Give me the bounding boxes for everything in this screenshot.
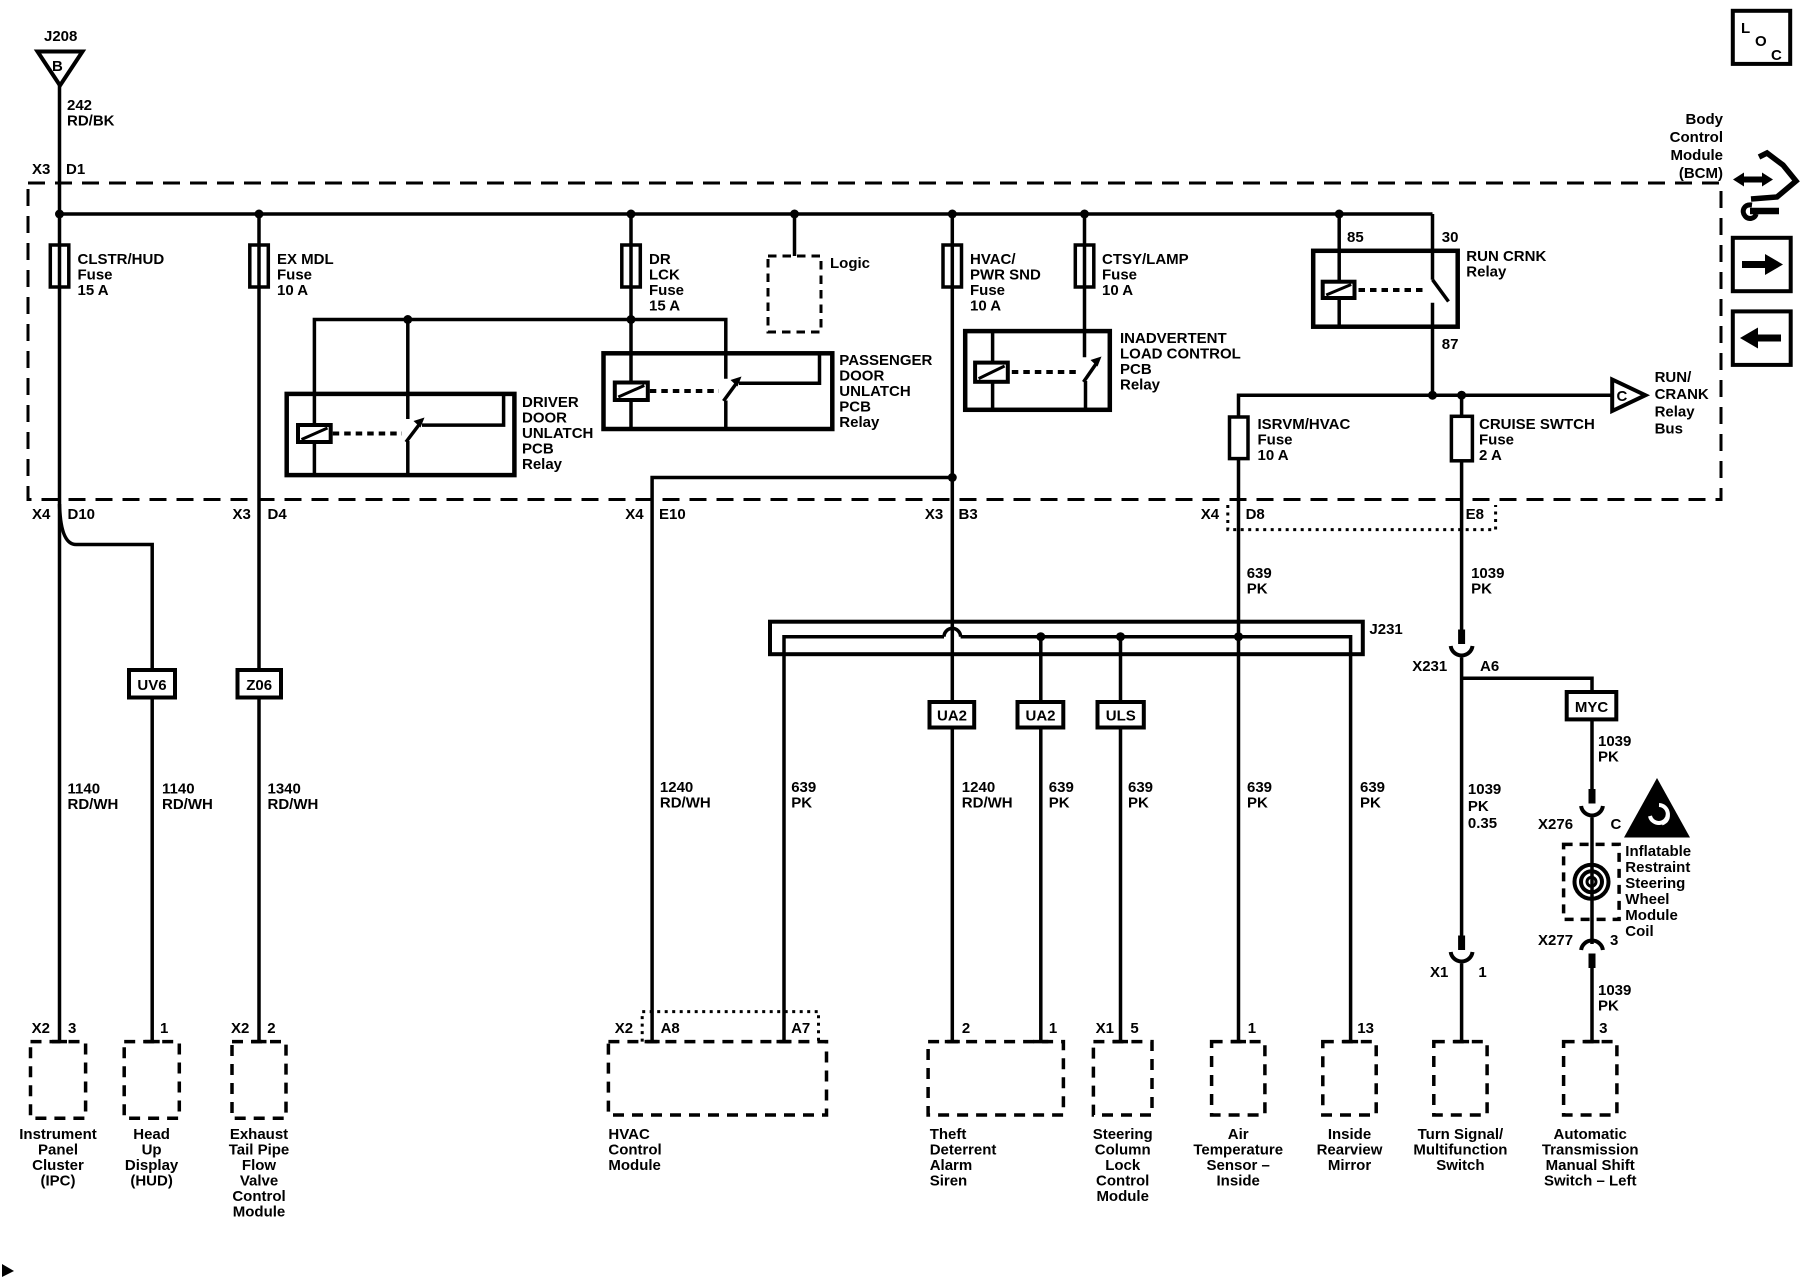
svg-text:Inside: Inside [1328,1126,1371,1143]
svg-text:DOOR: DOOR [522,410,567,427]
nav arrow box left [1733,311,1791,365]
svg-text:Up: Up [142,1142,162,1159]
wire RUN CRNK relay coil pin 85 [1337,214,1341,282]
svg-text:UV6: UV6 [137,677,166,694]
svg-text:1039: 1039 [1598,982,1631,999]
node: J231 junction 639 PK wire [1234,632,1243,641]
wire ULS splice output down [1119,637,1123,1042]
svg-text:Fuse: Fuse [970,282,1005,299]
svg-text:Exhaust: Exhaust [230,1126,288,1143]
svg-text:1: 1 [160,1020,168,1037]
wire X1 down to turn signal switch [1460,964,1464,1042]
svg-text:X1: X1 [1096,1020,1114,1037]
node: bus junction at EX MDL [255,210,264,219]
svg-text:LOAD CONTROL: LOAD CONTROL [1120,346,1241,363]
connector box Automatic Transmission Manual Shift Switch - Left [1542,1042,1639,1190]
svg-text:Logic: Logic [830,255,870,272]
svg-text:B3: B3 [959,506,978,523]
svg-text:Alarm: Alarm [930,1157,973,1174]
svg-text:1039: 1039 [1471,565,1504,582]
svg-text:Fuse: Fuse [649,282,684,299]
svg-text:PK: PK [1468,798,1489,815]
svg-text:10 A: 10 A [1102,282,1133,299]
svg-text:Inside: Inside [1217,1173,1260,1190]
svg-text:Fuse: Fuse [277,267,312,284]
svg-text:639: 639 [1360,779,1385,796]
svg-text:1140: 1140 [162,781,195,798]
svg-text:Relay: Relay [1466,264,1507,281]
node dot at HVAC/PWR SND wire [948,473,957,482]
svg-text:UA2: UA2 [937,708,967,725]
svg-text:A6: A6 [1480,658,1499,675]
svg-text:RD/WH: RD/WH [162,796,213,813]
svg-text:10 A: 10 A [1258,447,1289,464]
node: bus junction at HVAC/PWR SND [948,210,957,219]
svg-text:PK: PK [1247,581,1268,598]
wire X277 down to auto trans switch [1590,958,1594,1042]
svg-text:MYC: MYC [1575,699,1609,716]
svg-text:UNLATCH: UNLATCH [522,425,593,442]
svg-text:10 A: 10 A [277,282,308,299]
node: bus junction at CLSTR/HUD [55,210,64,219]
wire HVAC/PWR SND fuse feed down to theft siren pin 2 [951,214,955,1042]
svg-text:85: 85 [1347,229,1364,246]
svg-text:Fuse: Fuse [1479,432,1514,449]
svg-text:Control: Control [608,1142,661,1159]
svg-text:ULS: ULS [1106,708,1136,725]
fuse CTSY/LAMP 10 A [1075,245,1188,299]
svg-text:D4: D4 [268,506,288,523]
wire DR LCK fuse feed down to passenger relay coil [629,214,633,383]
svg-text:PASSENGER: PASSENGER [839,352,932,369]
svg-text:3: 3 [68,1020,76,1037]
connector box HVAC Control Module [608,1042,826,1174]
svg-text:Transmission: Transmission [1542,1142,1639,1159]
svg-text:PK: PK [1598,998,1619,1015]
wire CTSY/LAMP fuse feed down into inadvertent relay switch [1083,214,1087,357]
svg-text:Lock: Lock [1105,1157,1141,1174]
relay: RUN CRNK relay [1313,229,1546,395]
svg-text:DRIVER: DRIVER [522,394,579,411]
svg-text:RUN/: RUN/ [1655,369,1692,386]
node: relay feed junction at DR LCK output [627,315,636,324]
continuation icon (double arrow with hook) [1733,153,1796,218]
fuse CRUISE SWTCH 2 A [1451,395,1594,464]
svg-text:2 A: 2 A [1479,447,1502,464]
svg-text:B: B [52,58,63,75]
connector box Turn Signal/Multifunction Switch [1413,1042,1507,1174]
svg-text:Rearview: Rearview [1317,1142,1383,1159]
svg-text:(HUD): (HUD) [130,1173,173,1190]
wire below X231 down to X1 [1460,658,1464,938]
svg-text:X4: X4 [1201,506,1220,523]
svg-text:87: 87 [1442,336,1459,353]
relay: driver door unlatch PCB relay [287,394,594,475]
svg-text:1: 1 [1049,1020,1057,1037]
svg-text:PK: PK [1247,795,1268,812]
node: bus junction at DR LCK [627,210,636,219]
svg-text:Control: Control [1096,1173,1149,1190]
svg-text:Instrument: Instrument [19,1126,97,1143]
relay: passenger door unlatch PCB relay [604,352,933,431]
svg-text:HVAC: HVAC [608,1126,650,1143]
svg-text:HVAC/: HVAC/ [970,251,1016,268]
svg-text:Switch – Left: Switch – Left [1544,1173,1637,1190]
svg-text:639: 639 [1049,779,1074,796]
connector X4 dotted pass-through box (D8-E8) [1228,505,1496,530]
wire MYC down to X276 [1590,719,1594,790]
svg-text:15 A: 15 A [649,298,680,315]
svg-text:1039: 1039 [1598,733,1631,750]
inline connector X231 A6 [1412,630,1499,676]
svg-text:X2: X2 [32,1020,50,1037]
svg-text:PK: PK [1360,795,1381,812]
wire driver relay switch drop [406,320,410,420]
svg-text:A8: A8 [661,1020,680,1037]
node: J231 junction ULS wire [1116,632,1125,641]
svg-text:CRUISE SWTCH: CRUISE SWTCH [1479,416,1595,433]
node: bus junction at CTSY/LAMP [1080,210,1089,219]
svg-text:Fuse: Fuse [78,267,113,284]
node: run/crank bus junction at cruise fuse [1457,391,1466,400]
wire E10 branch to HVAC control module A8 [652,478,952,1042]
wire RUN/CRANK relay bus horizontal [1239,395,1613,417]
svg-text:1240: 1240 [962,779,995,796]
fuse HVAC/PWR SND 10 A [943,245,1041,315]
svg-text:RD/WH: RD/WH [660,795,711,812]
svg-text:Deterrent: Deterrent [930,1142,997,1159]
wire 242 RD/BK from J208 to BCM [58,86,62,215]
svg-text:Control: Control [232,1188,285,1205]
svg-text:ISRVM/HVAC: ISRVM/HVAC [1258,416,1351,433]
svg-text:Flow: Flow [242,1157,276,1174]
inline connector X276 C [1538,789,1622,833]
svg-text:1240: 1240 [660,779,693,796]
connector entry pin ticks [52,1040,67,1044]
wire RUN CRNK relay pin 30 (bus corner) [1431,214,1435,280]
svg-text:Fuse: Fuse [1102,267,1137,284]
svg-text:Automatic: Automatic [1554,1126,1627,1143]
svg-text:X2: X2 [615,1020,633,1037]
svg-text:CTSY/LAMP: CTSY/LAMP [1102,251,1189,268]
svg-text:X4: X4 [32,506,51,523]
svg-text:Cluster: Cluster [32,1157,84,1174]
svg-text:PCB: PCB [522,441,554,458]
svg-text:Module: Module [1671,147,1724,164]
wire UV6 down to HUD connector [150,698,154,1042]
svg-text:639: 639 [1247,565,1272,582]
svg-text:X277: X277 [1538,932,1573,949]
svg-text:Temperature: Temperature [1193,1142,1283,1159]
svg-text:EX MDL: EX MDL [277,251,334,268]
LOC page box [1733,11,1790,64]
svg-text:PCB: PCB [1120,361,1152,378]
connector box Air Temperature Sensor - Inside [1193,1020,1283,1190]
connector box Head Up Display [124,1042,179,1190]
svg-text:X1: X1 [1430,964,1448,981]
svg-text:Sensor –: Sensor – [1207,1157,1270,1174]
svg-text:Body: Body [1686,111,1724,128]
relay: inadvertent load control PCB relay [965,330,1241,410]
svg-text:X2: X2 [231,1020,249,1037]
connector box Inside Rearview Mirror [1317,1020,1383,1174]
svg-text:Valve: Valve [240,1173,278,1190]
connector box Instrument Panel Cluster [19,1042,97,1190]
nav arrow box right [1733,238,1791,291]
fuse CLSTR/HUD 15 A [50,245,164,299]
svg-text:Module: Module [1096,1188,1149,1205]
svg-text:Tail Pipe: Tail Pipe [229,1142,290,1159]
svg-text:242: 242 [67,97,92,114]
svg-text:X4: X4 [625,506,644,523]
wire relay feed horizontal (driver/passenger) [314,320,725,426]
svg-text:UNLATCH: UNLATCH [839,383,910,400]
svg-text:Coil: Coil [1625,923,1653,940]
svg-text:15 A: 15 A [78,282,109,299]
connector X2 dotted pass-through (A8-A7) [642,1012,818,1042]
svg-text:639: 639 [1128,779,1153,796]
svg-text:Fuse: Fuse [1258,432,1293,449]
svg-text:PK: PK [1128,795,1149,812]
svg-text:Panel: Panel [38,1142,78,1159]
svg-text:Z06: Z06 [246,677,272,694]
wire branch curve to HUD [60,504,153,670]
svg-text:Manual Shift: Manual Shift [1546,1157,1635,1174]
svg-text:D10: D10 [68,506,96,523]
node: J231 junction UA2 wire [1036,632,1045,641]
svg-text:X3: X3 [925,506,943,523]
svg-text:RD/WH: RD/WH [268,796,319,813]
connector box Exhaust Tail Pipe Flow Valve Control Module [229,1042,290,1221]
inline connector X277 3 [1538,932,1618,968]
bus wire top (inside BCM) [60,212,1433,216]
svg-text:RD/WH: RD/WH [962,795,1013,812]
connector box Theft Deterrent Alarm Siren [928,1042,1063,1190]
svg-text:Theft: Theft [930,1126,967,1143]
svg-text:639: 639 [1247,779,1272,796]
svg-text:L: L [1741,20,1750,37]
wire ISRVM fuse down to J231 and air temp sensor [1237,459,1241,1042]
label Body Control Module (BCM) [1670,111,1724,182]
svg-text:CRANK: CRANK [1655,386,1709,403]
wire UA2 splice output down [1039,637,1043,1042]
svg-text:INADVERTENT: INADVERTENT [1120,330,1227,347]
page corner mark [2,1264,14,1277]
fuse ISRVM/HVAC 10 A [1230,416,1351,464]
svg-text:PK: PK [1598,749,1619,766]
svg-text:PK: PK [791,795,812,812]
svg-text:Relay: Relay [1655,403,1696,420]
svg-text:Wheel: Wheel [1625,891,1669,908]
svg-text:RD/WH: RD/WH [68,796,119,813]
svg-text:Restraint: Restraint [1625,859,1690,876]
svg-text:13: 13 [1357,1020,1374,1037]
connector J208 triangle B [38,28,83,86]
connector box Steering Column Lock Control Module [1093,1042,1153,1205]
svg-text:Relay: Relay [839,414,880,431]
svg-text:(BCM): (BCM) [1679,165,1723,182]
svg-text:Turn Signal/: Turn Signal/ [1418,1126,1504,1143]
svg-text:Module: Module [1625,907,1678,924]
svg-text:Relay: Relay [1120,377,1161,394]
svg-text:E8: E8 [1466,506,1484,523]
option box UV6 [129,670,175,698]
svg-text:0.35: 0.35 [1468,815,1497,832]
svg-text:C: C [1611,816,1622,833]
svg-text:Siren: Siren [930,1173,968,1190]
svg-text:Steering: Steering [1625,875,1685,892]
svg-text:UA2: UA2 [1025,708,1055,725]
svg-text:2: 2 [267,1020,275,1037]
svg-text:Inflatable: Inflatable [1625,843,1691,860]
wire Logic feed [793,214,797,256]
svg-text:PK: PK [1471,581,1492,598]
svg-text:PCB: PCB [839,399,871,416]
svg-text:5: 5 [1130,1020,1138,1037]
svg-text:(IPC): (IPC) [41,1173,76,1190]
svg-text:J231: J231 [1369,621,1402,638]
svg-text:X276: X276 [1538,816,1573,833]
svg-text:PWR SND: PWR SND [970,267,1041,284]
svg-text:Air: Air [1228,1126,1249,1143]
svg-text:639: 639 [791,779,816,796]
fuse EX MDL 10 A [250,245,334,299]
splice pack J231 [770,621,1403,1042]
svg-text:DR: DR [649,251,671,268]
BCM dashed border [28,183,1721,500]
svg-text:RD/BK: RD/BK [67,113,115,130]
svg-text:10 A: 10 A [970,298,1001,315]
svg-text:Head: Head [133,1126,170,1143]
svg-text:X231: X231 [1412,658,1447,675]
fuse DR LCK 15 A [622,245,684,315]
svg-text:Switch: Switch [1436,1157,1484,1174]
svg-text:3: 3 [1599,1020,1607,1037]
svg-text:Steering: Steering [1093,1126,1153,1143]
wire branch to MYC [1462,678,1592,692]
svg-text:O: O [1755,33,1767,50]
svg-text:Bus: Bus [1655,421,1683,438]
svg-text:2: 2 [962,1020,970,1037]
triangle C run/crank relay bus [1612,369,1709,438]
svg-text:E10: E10 [659,506,686,523]
option box Z06 [238,670,282,698]
svg-text:J208: J208 [44,28,77,45]
inline connector X1 1 [1430,936,1487,982]
svg-text:LCK: LCK [649,267,680,284]
svg-text:1140: 1140 [68,781,101,798]
svg-text:Relay: Relay [522,456,563,473]
svg-text:Module: Module [608,1157,661,1174]
warning triangle SIR [1624,778,1690,838]
option box MYC [1567,692,1617,719]
svg-text:Control: Control [1670,129,1723,146]
option box UA2 (second) [1018,702,1064,728]
node: bus junction at RUN CRNK pin 85 [1335,210,1344,219]
module box inflatable restraint steering wheel coil [1564,843,1692,940]
node: run/crank bus junction at pin 87 [1428,391,1437,400]
svg-text:RUN CRNK: RUN CRNK [1466,248,1546,265]
wire cruise fuse down to X231 [1460,461,1464,631]
logic box [768,255,870,332]
option box UA2 (theft wire) [930,702,975,728]
wire CLSTR/HUD fuse feed down to IPC [58,214,62,1042]
svg-text:3: 3 [1610,932,1618,949]
svg-text:D8: D8 [1246,506,1265,523]
svg-text:DOOR: DOOR [839,368,884,385]
svg-text:1: 1 [1248,1020,1256,1037]
svg-text:1039: 1039 [1468,781,1501,798]
svg-text:Multifunction: Multifunction [1413,1142,1507,1159]
svg-text:Column: Column [1095,1142,1151,1159]
svg-text:Mirror: Mirror [1328,1157,1372,1174]
svg-text:C: C [1771,47,1782,64]
svg-text:30: 30 [1442,229,1459,246]
svg-text:X3: X3 [32,161,50,178]
svg-text:1340: 1340 [268,781,301,798]
svg-text:1: 1 [1478,964,1486,981]
svg-text:CLSTR/HUD: CLSTR/HUD [78,251,165,268]
svg-text:Display: Display [125,1157,179,1174]
svg-text:C: C [1617,388,1628,405]
option box ULS [1098,702,1144,728]
svg-text:A7: A7 [791,1020,810,1037]
wire X276 down through coil module [1590,818,1594,945]
svg-text:D1: D1 [66,161,85,178]
node: relay feed junction at driver switch [403,315,412,324]
wire EX MDL fuse feed down to exhaust module [257,214,261,1042]
svg-text:X3: X3 [233,506,251,523]
node: bus junction at Logic [790,210,799,219]
svg-text:Module: Module [233,1204,286,1221]
svg-text:PK: PK [1049,795,1070,812]
